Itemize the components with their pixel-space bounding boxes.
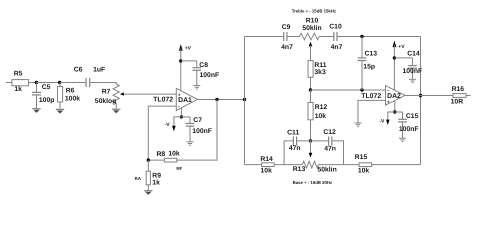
svg-text:100nF: 100nF	[399, 126, 419, 133]
wire to C8	[181, 60, 197, 62]
node C13 bottom	[360, 88, 363, 91]
svg-text:RF: RF	[176, 166, 182, 171]
ground under C15	[399, 138, 406, 141]
ground under C14	[409, 79, 416, 82]
svg-text:C11: C11	[287, 130, 299, 137]
svg-text:100k: 100k	[65, 95, 80, 102]
resistor R9	[135, 160, 162, 190]
resistor R11	[308, 61, 327, 90]
DA1 inverting input wire	[148, 106, 176, 160]
resistor R12	[308, 90, 327, 141]
svg-text:C7: C7	[193, 117, 202, 124]
resistor R14	[260, 156, 302, 175]
resistor R6	[58, 83, 81, 109]
svg-text:100p: 100p	[39, 97, 55, 104]
ground under R6	[56, 109, 64, 113]
capacitor C9	[281, 24, 293, 51]
svg-text:R13: R13	[293, 166, 306, 173]
node C15 tap	[393, 110, 396, 113]
svg-text:-V: -V	[165, 122, 171, 128]
+V supply arrow DA1	[179, 44, 192, 91]
svg-text:C14: C14	[407, 51, 420, 58]
wire treble rail right	[337, 36, 421, 38]
svg-text:-V: -V	[379, 118, 385, 124]
node C13 top	[360, 35, 363, 38]
node C8 tap	[179, 59, 182, 62]
-V supply arrow DA2	[379, 118, 389, 125]
svg-text:1k: 1k	[14, 86, 22, 93]
node C7 tap	[180, 115, 183, 118]
node at R6	[58, 81, 61, 84]
-V supply pin DA2	[394, 101, 396, 113]
wire node to DA2 inverting input	[311, 89, 386, 91]
svg-text:10k: 10k	[315, 113, 327, 120]
-V supply pin DA1	[180, 108, 182, 117]
capacitor C6	[74, 67, 105, 87]
svg-text:C10: C10	[329, 24, 342, 31]
+V supply arrow DA2	[393, 41, 406, 91]
node R11/R12	[309, 88, 312, 91]
wire C5 node to R6 node	[36, 82, 59, 84]
svg-text:R16: R16	[452, 86, 465, 93]
svg-text:10k: 10k	[261, 168, 273, 175]
resistor R16	[451, 86, 471, 106]
svg-text:3k3: 3k3	[314, 69, 326, 76]
wire bass rail right	[332, 141, 344, 165]
capacitor C15	[395, 112, 419, 138]
ground under C8	[193, 86, 200, 89]
svg-text:C6: C6	[74, 67, 83, 74]
resistor R5	[12, 70, 29, 93]
svg-text:-: -	[387, 88, 389, 94]
svg-text:C13: C13	[365, 51, 378, 58]
svg-text:+V: +V	[185, 45, 192, 51]
svg-text:10k: 10k	[168, 151, 180, 158]
R13 wiper arrow	[309, 141, 313, 158]
ground at DA2 + input	[355, 123, 362, 126]
wire R6 node to C6	[60, 82, 86, 84]
svg-text:50klin: 50klin	[317, 166, 336, 173]
potentiometer R7	[95, 84, 120, 109]
svg-text:R12: R12	[315, 104, 328, 111]
svg-text:RA: RA	[135, 176, 142, 181]
svg-text:C15: C15	[406, 113, 419, 120]
input terminal stub	[6, 82, 12, 84]
node C14 tap	[393, 56, 396, 59]
resistor R15	[355, 154, 421, 175]
capacitor C14	[403, 51, 423, 79]
wire R10 to C10	[319, 36, 334, 38]
svg-text:50klin: 50klin	[302, 25, 321, 32]
svg-text:R11: R11	[314, 62, 326, 69]
svg-text:10R: 10R	[451, 99, 464, 106]
wire C9 to R10	[287, 36, 300, 38]
svg-text:R7: R7	[102, 89, 111, 96]
ground under C7	[187, 142, 194, 145]
wire to C14	[394, 57, 412, 59]
svg-text:C8: C8	[199, 62, 208, 69]
feedback wire to R8	[177, 100, 217, 161]
wire to -V arrow	[388, 112, 395, 120]
svg-text:R8: R8	[156, 151, 165, 158]
wire R13 to R15	[318, 164, 359, 166]
node R8/R9	[147, 158, 150, 161]
wire DA2 output riser	[420, 37, 422, 165]
capacitor C10	[329, 24, 342, 51]
ground under R9	[144, 191, 152, 195]
potentiometer R13	[293, 161, 337, 173]
-V supply arrow DA1	[165, 122, 176, 131]
svg-text:Base + - 15dB 20Hz: Base + - 15dB 20Hz	[293, 180, 333, 185]
capacitor C7	[181, 117, 212, 141]
DA2 non-inverting input wire	[358, 100, 386, 122]
wire C6 to R7	[90, 83, 117, 85]
node at R5/C5	[35, 81, 38, 84]
svg-text:100nF: 100nF	[200, 72, 220, 79]
wire treble rail left	[245, 36, 284, 38]
capacitor C8	[193, 61, 220, 85]
svg-text:R6: R6	[66, 88, 75, 95]
svg-text:C9: C9	[282, 24, 291, 31]
svg-text:C5: C5	[42, 84, 51, 91]
svg-text:1uF: 1uF	[93, 67, 105, 74]
node bass center	[309, 139, 312, 142]
svg-text:R15: R15	[355, 154, 368, 161]
svg-text:4n7: 4n7	[281, 44, 293, 51]
capacitor C11	[287, 130, 300, 153]
svg-text:47n: 47n	[324, 145, 336, 152]
svg-text:+: +	[387, 100, 390, 106]
capacitor C5	[32, 83, 54, 109]
svg-text:47n: 47n	[289, 145, 301, 152]
svg-text:4n7: 4n7	[331, 44, 343, 51]
svg-text:-: -	[178, 104, 180, 110]
wire R5 to C5 node	[29, 82, 37, 84]
resistor R8	[148, 151, 182, 171]
op-amp DA1	[153, 88, 197, 110]
node DA2 output	[419, 94, 422, 97]
wire R14 left riser junction	[245, 164, 262, 166]
wire bass rail left	[284, 141, 293, 165]
svg-text:10k: 10k	[358, 168, 370, 175]
node output to R8	[215, 98, 218, 101]
svg-text:50klog: 50klog	[95, 98, 117, 105]
R7 wiper arrow	[120, 92, 176, 95]
op-amp DA2	[361, 86, 405, 106]
svg-text:1k: 1k	[152, 179, 160, 186]
ground under C5	[32, 109, 40, 113]
wire DA1 output vertical riser	[244, 37, 246, 165]
DA1 output wire	[197, 99, 244, 101]
node output to tone network	[243, 98, 246, 101]
wire to -V arrow	[174, 117, 182, 126]
R10 wiper arrow	[309, 42, 313, 61]
svg-text:C12: C12	[323, 129, 336, 136]
ground under R7	[112, 109, 120, 113]
svg-text:+V: +V	[398, 44, 405, 50]
svg-text:R5: R5	[14, 70, 23, 77]
svg-text:100nF: 100nF	[192, 128, 212, 135]
svg-text:R10: R10	[306, 18, 319, 25]
DA2 output wire	[405, 95, 453, 97]
svg-text:TL072: TL072	[361, 93, 381, 100]
potentiometer R10	[299, 18, 321, 40]
svg-text:15p: 15p	[363, 64, 375, 71]
svg-text:TL072: TL072	[153, 96, 173, 103]
svg-text:Treble + - 15dB 15kHz: Treble + - 15dB 15kHz	[292, 9, 336, 14]
svg-text:R14: R14	[260, 156, 273, 163]
capacitor C12	[323, 129, 336, 152]
capacitor C13	[358, 37, 377, 91]
svg-text:+: +	[178, 92, 181, 98]
svg-text:100nF: 100nF	[403, 68, 423, 75]
wire C11 to C12	[297, 140, 329, 142]
